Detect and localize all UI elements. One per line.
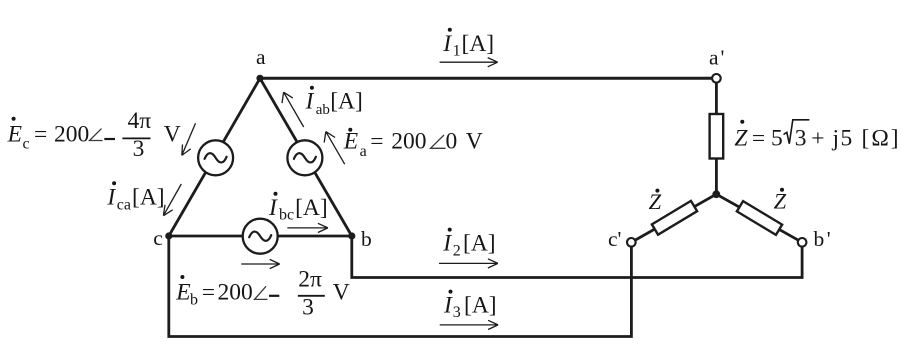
- svg-text:3: 3: [302, 295, 314, 321]
- svg-text:c: c: [153, 226, 163, 250]
- svg-text:b: b: [361, 227, 372, 251]
- svg-text:I: I: [443, 293, 453, 319]
- svg-text:=: =: [202, 280, 215, 306]
- svg-text:=: =: [752, 125, 765, 151]
- svg-text:V: V: [164, 121, 181, 147]
- svg-text:[A]: [A]: [330, 88, 363, 114]
- svg-text:[A]: [A]: [132, 184, 165, 210]
- svg-text:I: I: [305, 88, 315, 114]
- svg-text:=: =: [370, 129, 383, 155]
- svg-text:I: I: [268, 195, 278, 221]
- svg-text:a': a': [709, 46, 726, 70]
- svg-text:V: V: [333, 280, 350, 306]
- svg-text:[A]: [A]: [463, 231, 496, 257]
- svg-text:[A]: [A]: [462, 31, 495, 57]
- svg-text:V: V: [466, 129, 483, 155]
- svg-text:3: 3: [133, 136, 145, 162]
- svg-text:1: 1: [453, 43, 461, 60]
- svg-text:a: a: [360, 143, 367, 160]
- svg-text:j5: j5: [832, 125, 854, 151]
- svg-text:0: 0: [446, 129, 458, 155]
- svg-text:2: 2: [453, 242, 461, 259]
- svg-text:3: 3: [453, 304, 461, 321]
- svg-text:200: 200: [54, 121, 89, 147]
- svg-text:c': c': [608, 227, 621, 251]
- svg-text:Z: Z: [649, 189, 662, 214]
- svg-text:[A]: [A]: [295, 195, 328, 221]
- svg-text:200: 200: [391, 129, 426, 155]
- svg-text:5: 5: [771, 125, 783, 151]
- svg-text:E: E: [343, 129, 358, 155]
- svg-text:E: E: [7, 121, 22, 147]
- svg-text:+: +: [811, 125, 824, 151]
- svg-text:E: E: [175, 280, 190, 306]
- svg-text:I: I: [106, 184, 116, 210]
- svg-text:2π: 2π: [298, 267, 322, 293]
- svg-text:I: I: [442, 231, 452, 257]
- svg-text:Z: Z: [774, 188, 787, 213]
- svg-text:c: c: [23, 136, 30, 153]
- svg-text:4π: 4π: [127, 108, 151, 134]
- svg-text:I: I: [442, 31, 452, 57]
- svg-text:bc: bc: [279, 206, 294, 223]
- svg-text:ab: ab: [316, 102, 330, 118]
- svg-text:[A]: [A]: [464, 293, 497, 319]
- svg-text:b': b': [814, 227, 834, 251]
- svg-text:[Ω]: [Ω]: [862, 125, 901, 151]
- svg-text:ca: ca: [117, 197, 131, 214]
- svg-text:=: =: [34, 121, 47, 147]
- svg-text:200: 200: [218, 280, 253, 306]
- svg-text:b: b: [190, 291, 198, 308]
- svg-text:3: 3: [795, 125, 807, 151]
- svg-text:a: a: [256, 45, 266, 69]
- svg-text:Z: Z: [734, 125, 748, 151]
